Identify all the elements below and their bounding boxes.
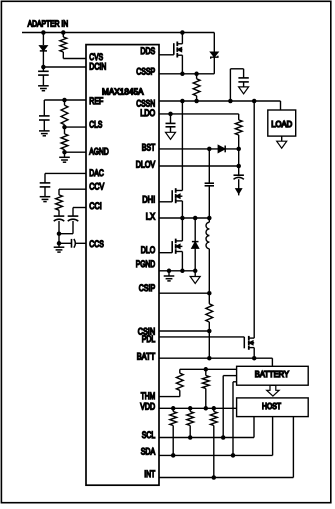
wire DCIN cap bottom lead [42,75,44,86]
junction CSSN / bypass cap [228,99,233,104]
wire high FET drain to CSSN [181,101,183,191]
wire BST pin [159,148,239,150]
capacitor CCS compensation [71,239,73,248]
wire REF cap top lead [43,100,45,116]
wire thermistor node line [180,368,237,370]
capacitor DAC filter [40,182,51,184]
svg-text:PDL: PDL [142,334,156,344]
junction adapter rail / input diode [41,30,46,35]
resistor SDA pullup [170,412,177,426]
wire REF cap bottom lead [43,120,45,131]
svg-text:MAX1845A: MAX1845A [102,88,144,97]
wire CCV pin [59,188,86,190]
wire battery data stub [233,381,237,383]
wire AGND pin [65,151,87,153]
wire PDL gate bar [243,337,245,348]
wire BATT pin [159,357,272,359]
wire REF pin [44,99,86,101]
wire PGND ground lead [168,271,170,276]
junction CCV/CCI common node [57,231,62,236]
resistor SCL pullup [187,412,194,426]
wire adapter diode top lead [213,33,215,53]
junction PGND / low FET [180,269,185,274]
wire LDO cap top lead [170,114,172,124]
resistor INT pullup [210,412,217,426]
wire BATT to battery box [271,358,273,366]
wire VDD pin [159,407,237,409]
svg-text:LOAD: LOAD [271,120,292,129]
junction LDO / bypass cap [168,112,173,117]
wire adapter diode bottom lead [213,57,215,74]
wire SCL pin [159,437,254,439]
wire input diode anode lead [42,33,44,46]
wire boost cap top lead [208,149,210,183]
capacitor DCIN bypass [38,70,49,72]
svg-text:VDD: VDD [140,402,155,412]
junction CSSP / sense resistor [194,72,199,77]
wire CSSN cap ground lead [243,82,245,87]
svg-text:THM: THM [141,391,156,401]
wire CLS pin [65,126,87,128]
capacitor BST boost [205,182,214,184]
wire THM pullup resistor top lead [205,369,207,375]
wire adapter input rail [22,32,214,34]
ground catch diode [190,277,200,284]
svg-text:REF: REF [89,96,103,106]
resistor THM series [176,373,183,390]
junction CCS node [57,241,62,246]
wire CSSP pin [159,73,214,75]
wire CSSN pin [159,100,281,102]
wire CSSN cap top lead [243,69,245,78]
wire source FET drain to rail [181,33,183,44]
wire CSSN cap riser [229,69,231,101]
wire battery clock drop [222,376,224,438]
wire DLOV pin [159,165,239,167]
svg-text:CCS: CCS [89,239,104,249]
svg-text:LX: LX [146,212,156,222]
ground LDO cap [166,132,176,139]
wire BST column to DLOV [238,149,240,166]
transistor low-side N-FET (DLO) [171,241,173,253]
svg-text:CLS: CLS [89,120,102,130]
svg-text:HOST: HOST [262,402,281,411]
junction thermistor node / pullup [204,367,209,372]
ground DCIN cap [38,85,49,87]
wire source sense resistor top lead [196,74,198,79]
resistor CLS to AGND divider [61,134,68,150]
wire CVS pin [63,58,86,60]
capacitor CCI compensation [68,215,79,217]
diode catch Schottky [192,241,199,243]
resistor CCV compensation [56,195,63,210]
wire low FET source to PGND [181,252,183,271]
junction BST / boost cap [207,147,212,152]
wire REF-CLS resistor bottom lead [64,125,66,128]
junction CSIN node [207,329,212,334]
wire THM pullup to VDD [205,389,207,409]
junction CSIP node [207,291,212,296]
svg-text:AGND: AGND [89,147,109,157]
junction SCL / pullup [188,435,193,440]
wire CCI cap bottom lead [72,221,74,234]
svg-text:DDS: DDS [140,46,155,56]
wire DAC cap top lead [44,173,46,183]
wire battery data drop [232,382,234,456]
wire DLOV cap ground lead [238,179,240,189]
diode DCIN input [40,46,47,51]
block HOST box [237,398,309,417]
block LOAD box [268,110,296,136]
wire battery sense resistor bottom lead [208,322,210,331]
svg-text:BST: BST [142,143,156,153]
ground CSSN cap [239,87,249,94]
wire LDO-BST resistor top lead [238,114,240,120]
junction LX / high FET [180,216,185,221]
wire CCS node ground lead [58,243,60,247]
junction CSSN / high FET drain [180,99,185,104]
svg-text:DLOV: DLOV [136,160,156,170]
junction SDA / pullup [171,453,176,458]
junction BATT / sense link [207,356,212,361]
wire CSIP pin [159,292,209,294]
wire LX pin [159,217,209,219]
wire battery FET drain column [253,101,255,338]
svg-text:CSIP: CSIP [139,283,156,293]
svg-text:CVS: CVS [89,52,103,62]
svg-text:CCI: CCI [89,201,102,211]
wire PDL pin [159,336,244,338]
transistor source-select P-FET (DDS) [173,43,175,55]
wire REF-CLS resistor top lead [64,100,66,105]
svg-text:INT: INT [144,469,155,479]
wire DAC cap bottom lead [44,187,46,197]
junction CSSN / sense resistor [194,99,199,104]
junction VDD / SCL pullup [188,406,193,411]
capacitor DLOV bypass [234,174,244,176]
wire SDA pullup bottom lead [172,426,174,456]
wire LDO-BST resistor bottom lead [238,135,240,149]
junction BST / LDO resistor [236,147,241,152]
svg-text:BATT: BATT [137,351,156,361]
wire SDA to HOST [272,417,274,456]
wire boost cap to LX [208,186,210,218]
wire CCS pin [76,242,86,244]
wire INT to HOST [292,417,294,478]
wire DCIN cap top lead [42,67,44,71]
wire SCL pullup bottom lead [189,426,191,438]
wire DCIN pin [43,66,86,68]
ground LOAD [277,141,287,148]
wire THM resistor bottom lead [179,390,181,396]
wire CLS-AGND resistor top lead [64,127,66,134]
wire CCV resistor top lead [58,189,60,195]
resistor battery current sense [206,304,213,322]
junction DCIN node [41,65,46,70]
wire CVS resistor bottom lead [62,52,64,59]
wire LDO cap ground lead [170,127,172,133]
wire CSIN pin [159,330,209,332]
inductor output L1 [208,218,210,222]
wire low FET drain to LX [181,218,183,241]
junction adapter rail / CVS resistor [61,30,66,35]
junction CSSN / battery FET column [252,99,257,104]
wire SCL to HOST [253,417,255,438]
transistor battery P-FET (PDL) [248,336,250,340]
wire CVS resistor top lead [62,33,64,38]
wire DLOV cap top lead [238,166,240,175]
svg-text:DHI: DHI [142,195,155,205]
wire source FET source to CSSP [181,55,183,74]
ground PGND [164,275,175,277]
svg-text:SDA: SDA [141,447,156,457]
wire THM pin [159,396,180,398]
wire catch diode anode to PGND [194,249,196,271]
wire catch diode cathode lead [194,218,196,241]
block BATTERY box [237,366,309,385]
wire common node down [58,234,60,244]
svg-text:SCL: SCL [142,430,156,440]
svg-text:DLO: DLO [141,245,156,255]
battery-host connector arrow [267,385,279,396]
junction VDD / THM pullup [204,406,209,411]
junction INT / pullup [212,475,217,480]
wire battery sense resistor top lead [208,293,210,304]
resistor CVS sense [60,37,67,52]
wire CCS cap left lead [59,242,72,244]
wire SDA pullup top lead [172,408,174,411]
junction CLS node [62,125,67,130]
op-amp U1 MAX1845A IC body [86,45,159,486]
wire INT pullup top lead [213,408,215,411]
resistor source current sense [193,79,200,96]
ground REF cap [39,130,50,132]
wire CCV resistor to cap lead [58,210,60,216]
resistor REF to CLS divider [61,105,68,124]
wire DLO pin to gate [159,252,172,254]
svg-text:LDO: LDO [140,108,155,118]
svg-text:PGND: PGND [136,259,156,269]
capacitor LDO bypass [166,122,176,124]
junction DLOV node [236,164,241,169]
junction SCL / battery drop [221,435,226,440]
junction PGND / catch diode [193,269,198,274]
wire catch diode ground lead [194,271,196,277]
wire INT pullup bottom lead [213,426,215,478]
wire SCL pullup top lead [189,408,191,411]
ground DAC cap [40,196,51,198]
wire LOAD drop [280,101,282,110]
svg-text:BATTERY: BATTERY [255,369,290,379]
wire CSIN to BATT link [208,331,210,358]
wire battery FET source to BATT [253,348,255,359]
junction BATT / battery FET [252,356,257,361]
wire INT pin [159,477,293,479]
capacitor system supply bypass [238,77,248,79]
junction PGND / ground stub [167,269,172,274]
wire high FET source to LX [181,201,183,218]
junction LX / catch diode [193,216,198,221]
junction AGND node [62,150,67,155]
junction VDD / SDA pullup [171,406,176,411]
diode adapter bypass Schottky [211,52,218,57]
ground CCS node [54,246,65,248]
wire CCI to common node [59,233,73,235]
wire DHI pin to gate [159,201,172,203]
wire input diode cathode to DCIN [42,51,44,67]
svg-text:DAC: DAC [89,168,104,178]
wire CCV cap bottom lead [58,221,60,234]
junction REF node [62,98,67,103]
wire CLS-AGND resistor bottom lead [64,150,66,153]
resistor LDO to BST [235,120,242,135]
junction adapter rail / source FET [180,30,185,35]
wire source sense resistor bottom lead [196,96,198,101]
wire DDS pin to gate [159,54,174,56]
wire SDA pin [159,454,273,456]
transistor high-side N-FET (DHI) [171,190,173,202]
wire AGND ground lead [64,152,66,157]
svg-text:CCV: CCV [89,181,104,191]
junction LX / inductor [207,216,212,221]
diode BST boost [218,146,224,153]
svg-text:CSSP: CSSP [136,67,155,77]
wire LDO pin [159,113,239,115]
wire THM resistor top lead [179,369,181,373]
resistor THM pullup [202,376,209,389]
wire LOAD ground lead [281,136,283,141]
wire CCI cap top lead [72,208,74,217]
junction SDA / battery drop [231,453,236,458]
wire battery clock stub [223,375,236,377]
junction VDD / INT pullup [212,406,217,411]
capacitor REF bypass [39,115,50,117]
wire DAC pin [45,172,86,174]
wire PGND pin [159,270,195,272]
ground AGND [59,156,70,158]
junction CSSP / FET [180,72,185,77]
wire CCI pin [73,207,86,209]
capacitor CCV compensation [54,215,65,217]
wire CSSN cap top link [230,68,243,70]
svg-text:DCIN: DCIN [89,62,106,72]
svg-text:ADAPTER IN: ADAPTER IN [28,18,69,28]
ground DLOV cap arrow [236,189,241,194]
